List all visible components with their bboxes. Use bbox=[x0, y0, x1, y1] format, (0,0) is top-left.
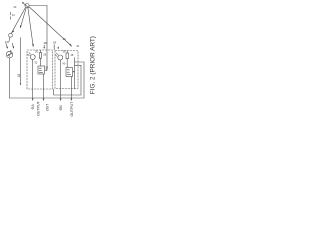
svg-text:32: 32 bbox=[34, 61, 37, 65]
ray after lens bbox=[9, 37, 10, 42]
wire: reference line 16 down bbox=[20, 38, 22, 85]
svg-text:36: 36 bbox=[63, 50, 66, 54]
svg-text:ΦA: ΦA bbox=[31, 104, 35, 110]
svg-text:FIG. 2 (PRIOR ART): FIG. 2 (PRIOR ART) bbox=[90, 36, 97, 94]
LED light source 10 bbox=[25, 4, 29, 8]
svg-text:ΦB: ΦB bbox=[59, 105, 63, 111]
svg-text:38: 38 bbox=[70, 53, 73, 57]
svg-text:42: 42 bbox=[76, 44, 79, 48]
ground rail bottom + right outer rail bbox=[10, 62, 85, 98]
light arrow into right box bbox=[57, 47, 59, 49]
light arrows into phototransistor bbox=[6, 43, 7, 48]
svg-text:12: 12 bbox=[5, 40, 9, 44]
svg-text:30: 30 bbox=[45, 65, 48, 69]
resistor in right box bbox=[66, 53, 68, 59]
photodetector in left box bbox=[30, 55, 35, 60]
output wire from left comparator bbox=[43, 74, 45, 100]
svg-text:OUTPUT: OUTPUT bbox=[70, 101, 74, 117]
amplifier block 18 (dashed box) bbox=[55, 51, 78, 89]
output wire phi-B bbox=[60, 60, 62, 100]
arrow through source up-left bbox=[23, 3, 29, 8]
svg-text:40: 40 bbox=[62, 61, 65, 65]
svg-text:10: 10 bbox=[13, 5, 17, 9]
slit / grating dashes 14 bbox=[9, 12, 11, 19]
resistor in left box bbox=[39, 53, 41, 59]
wire from source right then down into box 16 bbox=[29, 6, 47, 71]
lens 12 bbox=[9, 33, 13, 37]
light ray D to sensor of box 18 bbox=[29, 7, 71, 46]
svg-text:20: 20 bbox=[63, 37, 67, 41]
svg-text:28: 28 bbox=[43, 53, 46, 57]
photodetector in right box bbox=[58, 55, 63, 60]
svg-text:24: 24 bbox=[53, 40, 57, 44]
arrow into right comparator bbox=[73, 71, 76, 73]
svg-text:16: 16 bbox=[17, 74, 21, 78]
light ray A to lens bbox=[11, 7, 25, 33]
svg-text:OUTPUT: OUTPUT bbox=[37, 100, 41, 116]
amplifier block 16 (dashed box) bbox=[27, 50, 53, 89]
comparator in right box bbox=[66, 68, 73, 77]
phototransistor bbox=[6, 51, 13, 58]
svg-text:14: 14 bbox=[12, 14, 15, 17]
light ray B bbox=[20, 8, 26, 28]
svg-text:18: 18 bbox=[43, 41, 47, 45]
wire: phototransistor emitter down to rail bbox=[9, 58, 11, 98]
output wire phi-A bbox=[32, 60, 34, 101]
comparator in left box bbox=[38, 66, 45, 74]
inner rail bbox=[54, 65, 82, 95]
leader arrow into left comparator bbox=[45, 69, 47, 71]
svg-text:OUT: OUT bbox=[45, 104, 49, 111]
light ray C to sensor of box 16 bbox=[28, 8, 33, 47]
output wire from right comparator bbox=[70, 77, 72, 101]
wire right of comparator down bbox=[74, 58, 76, 90]
